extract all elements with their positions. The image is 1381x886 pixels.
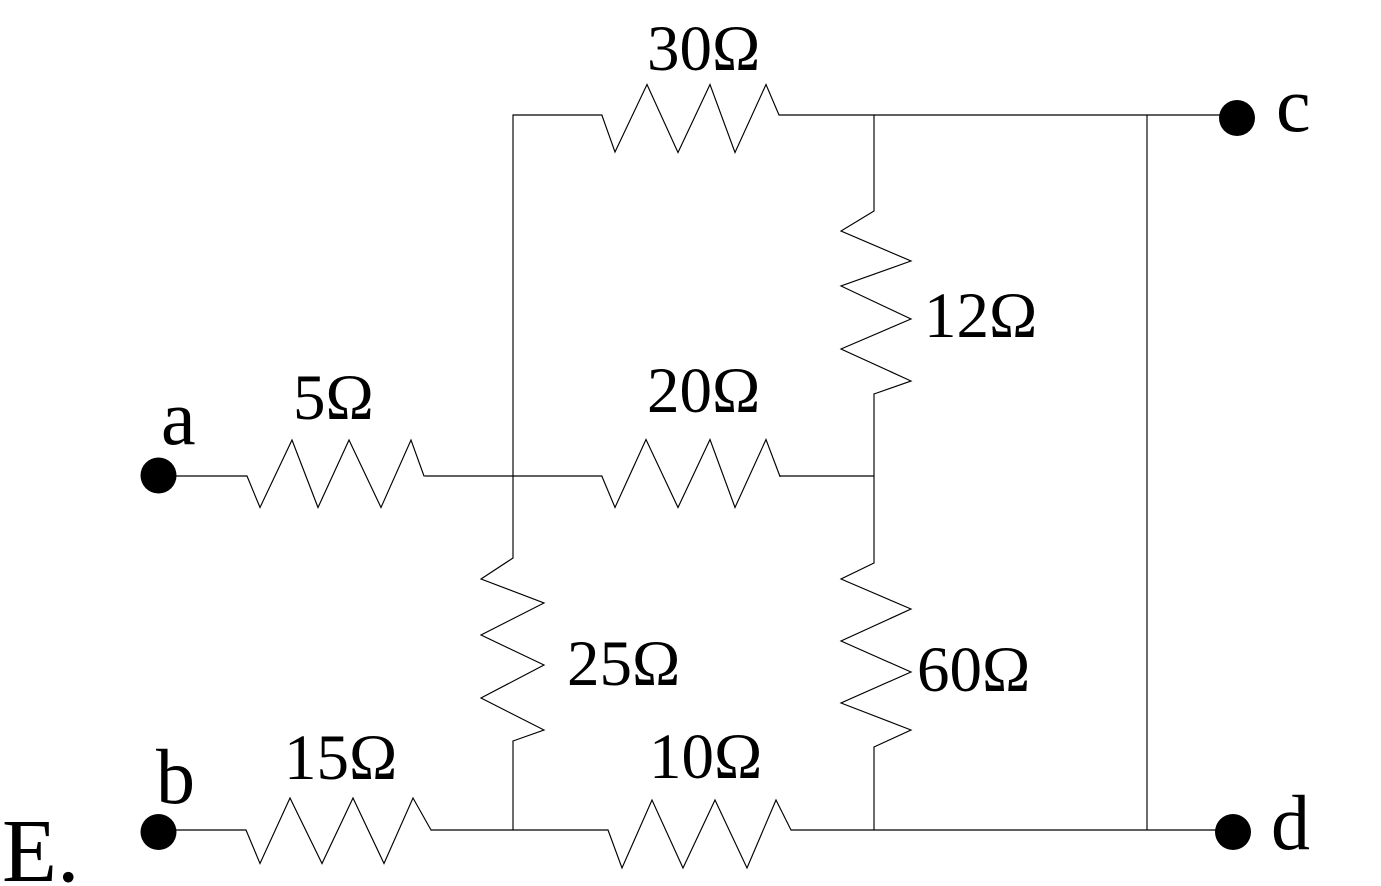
svg-text:5Ω: 5Ω <box>293 362 374 434</box>
svg-text:20Ω: 20Ω <box>647 355 760 427</box>
wire left vertical from 25-ohm down to bottom wire <box>512 741 514 830</box>
wire left vertical from top wire down to 25-ohm <box>512 115 514 558</box>
wire middle from 20-ohm to mid vertical line <box>780 475 874 477</box>
wire mid vertical between 12-ohm and 60-ohm <box>873 394 875 563</box>
svg-text:d: d <box>1271 779 1310 866</box>
terminal dot node d <box>1215 814 1251 850</box>
svg-text:a: a <box>161 374 196 461</box>
wire from node b to 15-ohm <box>176 829 246 831</box>
wire bottom between 15-ohm and 10-ohm <box>431 829 608 831</box>
resistor R 10ohm (bottom horizontal) <box>608 800 791 868</box>
terminal dot node a <box>141 458 177 494</box>
svg-text:25Ω: 25Ω <box>567 628 680 700</box>
wire mid vertical from 60-ohm to bottom wire <box>873 747 875 830</box>
wire top-left vertical corner segment (top wire from x=513 to 30-ohm) <box>513 114 602 116</box>
wire mid vertical from top wire down to 12-ohm <box>873 115 875 211</box>
svg-text:60Ω: 60Ω <box>917 634 1030 706</box>
wire top from 30-ohm to node c <box>779 114 1221 116</box>
resistor R 15ohm (bottom-left horizontal) <box>246 798 431 864</box>
svg-text:E.: E. <box>2 802 79 886</box>
wire middle between 5-ohm and 20-ohm <box>425 475 602 477</box>
terminal dot node c <box>1219 100 1255 136</box>
svg-text:15Ω: 15Ω <box>284 722 397 794</box>
svg-text:30Ω: 30Ω <box>647 13 760 85</box>
svg-text:12Ω: 12Ω <box>924 280 1037 352</box>
resistor R 20ohm (middle horizontal) <box>602 440 780 508</box>
resistor R 60ohm (vertical) <box>841 563 911 747</box>
wire from node a to 5-ohm <box>176 475 247 477</box>
wire right vertical from top wire to bottom wire <box>1146 115 1148 830</box>
resistor R 12ohm (vertical) <box>841 211 911 394</box>
resistor R 25ohm (vertical) <box>481 558 544 741</box>
resistor R 5ohm (middle-left horizontal) <box>247 440 424 508</box>
svg-text:c: c <box>1276 61 1311 148</box>
svg-text:10Ω: 10Ω <box>649 721 762 793</box>
wire bottom from 10-ohm to node d <box>791 829 1217 831</box>
resistor R 30ohm (top horizontal) <box>602 85 779 153</box>
svg-text:b: b <box>156 733 195 820</box>
terminal dot node b <box>141 814 177 850</box>
